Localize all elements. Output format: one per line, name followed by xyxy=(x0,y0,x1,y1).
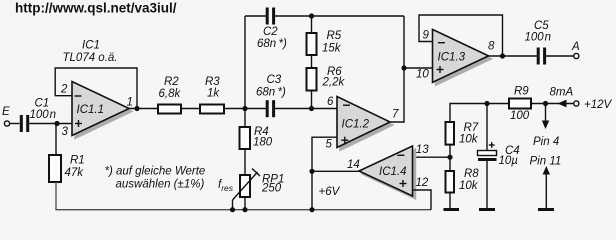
node R3/R4/C2 junction xyxy=(242,106,247,111)
node input junction xyxy=(54,121,59,126)
svg-text:C2: C2 xyxy=(263,26,278,38)
svg-text:7: 7 xyxy=(392,109,399,121)
svg-text:E: E xyxy=(2,106,10,118)
svg-text:IC1.1: IC1.1 xyxy=(77,104,105,116)
node E terminal xyxy=(4,121,9,126)
svg-text:1k: 1k xyxy=(207,88,220,100)
svg-text:C5: C5 xyxy=(534,20,549,32)
wire C4 top lead xyxy=(486,104,488,151)
svg-text:C1: C1 xyxy=(35,98,50,110)
resistor R2 xyxy=(158,76,181,114)
svg-text:68n *): 68n *) xyxy=(257,38,287,50)
resistor R6 xyxy=(307,66,346,91)
node +12V terminal xyxy=(574,101,579,106)
wire IC1.1 output xyxy=(129,108,158,110)
wire +12V rail xyxy=(450,104,509,123)
svg-text:A: A xyxy=(571,41,580,53)
svg-text:8: 8 xyxy=(488,41,495,53)
wire to IC1.3 pin10 xyxy=(404,67,433,69)
op-amp IC1.3 xyxy=(433,29,492,85)
svg-text:+12V: +12V xyxy=(584,99,613,111)
wire top rail left xyxy=(245,15,266,17)
node R5 top junction xyxy=(309,13,314,18)
op-amp IC1.1 xyxy=(72,82,132,139)
node C3/R6 junction xyxy=(309,106,314,111)
svg-text:2: 2 xyxy=(60,84,68,96)
svg-text:R7: R7 xyxy=(464,122,479,134)
wire top rail right xyxy=(275,15,404,17)
svg-text:1: 1 xyxy=(127,97,133,109)
node IC1.1 output junction xyxy=(134,106,139,111)
svg-text:R8: R8 xyxy=(464,168,479,180)
wire R4 to RP1 xyxy=(244,149,246,175)
svg-text:IC1.2: IC1.2 xyxy=(342,119,370,131)
wire RP1 wiper to rail xyxy=(232,200,234,210)
svg-text:250: 250 xyxy=(261,183,282,195)
node wiper junction xyxy=(230,207,235,212)
wire E to C1 xyxy=(10,123,20,125)
wire C5 to A xyxy=(546,55,574,57)
wire R9 to +12V terminal xyxy=(531,103,574,105)
svg-text:10k: 10k xyxy=(459,134,479,146)
node pin4 branch xyxy=(543,101,548,106)
resistor R8 xyxy=(446,168,480,193)
wire +6V bottom rail xyxy=(55,209,431,211)
svg-text:R2: R2 xyxy=(164,76,179,88)
wire R6 down to main line xyxy=(311,91,313,109)
svg-text:auswählen (±1%): auswählen (±1%) xyxy=(116,179,205,191)
wire R2 to R3 xyxy=(181,108,200,110)
svg-text:10k: 10k xyxy=(459,180,479,192)
pin 4 supply arrow xyxy=(533,104,559,149)
svg-text:8mA: 8mA xyxy=(550,87,574,99)
svg-text:9: 9 xyxy=(423,30,430,42)
svg-text:R3: R3 xyxy=(205,76,220,88)
node A terminal xyxy=(574,53,579,58)
svg-text:2,2k: 2,2k xyxy=(322,77,346,89)
svg-text:100: 100 xyxy=(510,110,530,122)
svg-text:R5: R5 xyxy=(327,30,342,42)
svg-text:100 n: 100 n xyxy=(525,32,552,44)
wire IC1.4 output to +6V xyxy=(312,170,359,172)
wire IC1.1 feedback pin2 xyxy=(55,68,137,109)
capacitor C2 xyxy=(257,8,287,51)
ground R8 xyxy=(444,208,460,211)
svg-text:Pin 11: Pin 11 xyxy=(530,156,562,168)
wire pin5 to +6V xyxy=(312,137,337,210)
node pin5/IC1.4 out junction xyxy=(309,169,314,174)
node C4 branch xyxy=(484,101,489,106)
svg-text:5: 5 xyxy=(326,139,333,151)
resistor R3 xyxy=(200,76,224,114)
capacitor C5 xyxy=(525,20,552,65)
pin 11 supply arrow xyxy=(530,156,562,209)
wire to R5 xyxy=(311,16,313,33)
wire C4 to ground xyxy=(486,161,488,209)
svg-text:TL074 o.ä.: TL074 o.ä. xyxy=(63,52,118,64)
ground C4 xyxy=(479,208,495,211)
svg-text:12: 12 xyxy=(416,177,429,189)
capacitor C3 xyxy=(256,74,286,117)
svg-text:15k: 15k xyxy=(322,43,342,55)
wire R4 top lead xyxy=(244,109,246,128)
wire pin12 feedback to rail xyxy=(413,190,432,210)
svg-text:Pin 4: Pin 4 xyxy=(533,136,559,148)
wire R3 to C3 xyxy=(224,108,266,110)
svg-text:IC1.3: IC1.3 xyxy=(438,52,466,64)
op-amp IC1.4 xyxy=(359,146,416,199)
svg-text:10: 10 xyxy=(416,69,429,81)
svg-text:3: 3 xyxy=(62,126,69,138)
svg-text:R9: R9 xyxy=(514,86,529,98)
wire RP1 bottom lead xyxy=(244,197,246,210)
wire junction to R1 xyxy=(55,124,57,156)
svg-text:68n *): 68n *) xyxy=(256,87,286,99)
wire IC1.2 output up to top rail xyxy=(390,16,404,122)
node +6V rail junction xyxy=(309,207,314,212)
svg-text:47k: 47k xyxy=(65,167,85,179)
svg-text:http://www.qsl.net/va3iul/: http://www.qsl.net/va3iul/ xyxy=(15,1,177,16)
svg-text:+6V: +6V xyxy=(319,186,341,198)
wire IC1.3 feedback pin9 xyxy=(419,15,503,56)
wire R7 to R8 xyxy=(449,145,451,171)
node RP1 bottom junction xyxy=(242,207,247,212)
wire R5 to R6 xyxy=(311,55,313,68)
svg-text:100 n: 100 n xyxy=(30,109,57,121)
wire R1 to +6V rail xyxy=(55,182,57,210)
resistor R7 xyxy=(446,122,479,146)
current arrow 8mA xyxy=(558,100,567,108)
svg-text:180: 180 xyxy=(253,137,273,149)
svg-text:C3: C3 xyxy=(267,74,282,86)
wire divider to pin13 xyxy=(413,156,451,158)
resistor R5 xyxy=(307,30,342,55)
trimmer RP1 xyxy=(233,169,285,201)
wire C3 to IC1.2 pin6 xyxy=(275,108,337,110)
wire junction up to C2 rail xyxy=(244,16,246,109)
capacitor C1 xyxy=(20,98,56,133)
ground pin11 xyxy=(538,208,554,211)
svg-text:14: 14 xyxy=(347,159,360,171)
wire C1 to IC1.1 pin3 xyxy=(29,123,72,125)
svg-text:*) auf gleiche Werte: *) auf gleiche Werte xyxy=(105,166,206,178)
node pin10 branch xyxy=(401,65,406,70)
svg-text:R1: R1 xyxy=(70,155,85,167)
svg-text:IC1.4: IC1.4 xyxy=(379,166,407,178)
svg-text:6: 6 xyxy=(327,96,334,108)
resistor R9 xyxy=(509,86,531,122)
wire R8 to ground xyxy=(449,193,451,209)
resistor R1 xyxy=(49,155,85,183)
svg-text:10µ: 10µ xyxy=(499,155,519,167)
node output/feedback junction xyxy=(500,53,505,58)
node divider junction xyxy=(447,155,452,160)
op-amp IC1.2 xyxy=(337,97,393,151)
svg-text:13: 13 xyxy=(416,144,429,156)
wire IC1.3 output xyxy=(489,55,538,57)
svg-text:IC1: IC1 xyxy=(82,40,100,52)
capacitor C4 electrolytic xyxy=(478,142,520,167)
svg-text:6,8k: 6,8k xyxy=(159,88,182,100)
resistor R4 xyxy=(240,126,273,149)
